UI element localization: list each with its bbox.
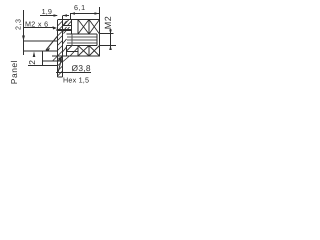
panel hatch [53, 21, 70, 76]
dimension 6,1 line [70, 13, 99, 15]
bore end wall [96, 34, 98, 46]
extension line M2 bottom [100, 45, 116, 47]
arrow M2 top [109, 30, 112, 35]
leader diagonal dia 3,8 [58, 59, 62, 73]
panel right face [62, 20, 64, 78]
extension line right of 6,1 [99, 7, 101, 20]
svg-text:Ø3,8: Ø3,8 [72, 63, 91, 73]
svg-text:Panel: Panel [9, 60, 19, 84]
dimension 1,9 line [40, 15, 57, 17]
cell mid line bottom [67, 51, 79, 53]
body bottom edge extension left [52, 55, 63, 57]
svg-text:M2: M2 [103, 16, 113, 30]
panel left face [57, 20, 59, 77]
panel bottom end [58, 76, 63, 78]
leader shelf dia 3,8 [56, 72, 91, 74]
arrow 2 pointing up [33, 52, 36, 58]
washer plate bottom edge [43, 60, 63, 62]
leader M2 x 6 [24, 27, 54, 29]
flange inner edge bottom [66, 46, 68, 57]
arrow dia 3,8 pointing up-right [58, 57, 63, 62]
svg-text:1,9: 1,9 [42, 7, 52, 16]
cross hatch X top band [63, 20, 100, 57]
extension line left of 6,1 [70, 14, 72, 21]
dimension 2,3 vertical line [23, 10, 25, 55]
arrow 1,9 left pointing right [54, 14, 59, 17]
cell divider 2 top [88, 20, 90, 35]
cell divider 2 bottom [88, 46, 90, 57]
cell divider top [77, 20, 79, 35]
labels [9, 3, 113, 84]
svg-text:M2 x 6: M2 x 6 [25, 20, 48, 29]
hex socket dark band [57, 29, 73, 31]
hole extension line top [24, 40, 58, 42]
thread crest lines [67, 34, 97, 46]
svg-text:2: 2 [27, 60, 37, 65]
hole extension line bottom [24, 50, 58, 52]
arrow 6,1 right [95, 12, 100, 15]
bore bottom [67, 45, 98, 47]
arrow 6,1 left [71, 12, 76, 15]
bore top [67, 33, 98, 35]
arrow 1,9 right pointing left [63, 14, 68, 17]
extension line 1,9 [62, 16, 64, 20]
arrow 2,3 top pointing down [22, 36, 25, 42]
body outline [58, 20, 100, 57]
arrowheads [22, 12, 112, 62]
svg-text:6,1: 6,1 [74, 3, 86, 12]
dimension 1,9 right-side stub [63, 15, 69, 17]
panel thickness 2 extension line [28, 65, 58, 67]
cell divider bottom [77, 46, 79, 57]
extension line M2 top [100, 33, 114, 35]
cell mid line top [63, 25, 72, 27]
arrow M2x6 leader [53, 26, 58, 29]
flange hatch [63, 20, 72, 34]
socket cell divider top [71, 20, 73, 35]
thread runout diagonal [46, 36, 58, 50]
dimension M2 vertical line [110, 29, 112, 50]
arrow on runout diagonal [45, 48, 50, 52]
svg-text:2,3: 2,3 [13, 19, 22, 31]
svg-text:Hex 1,5: Hex 1,5 [63, 75, 89, 84]
washer plate left edge [42, 51, 44, 66]
arrow M2 bottom [109, 46, 112, 51]
